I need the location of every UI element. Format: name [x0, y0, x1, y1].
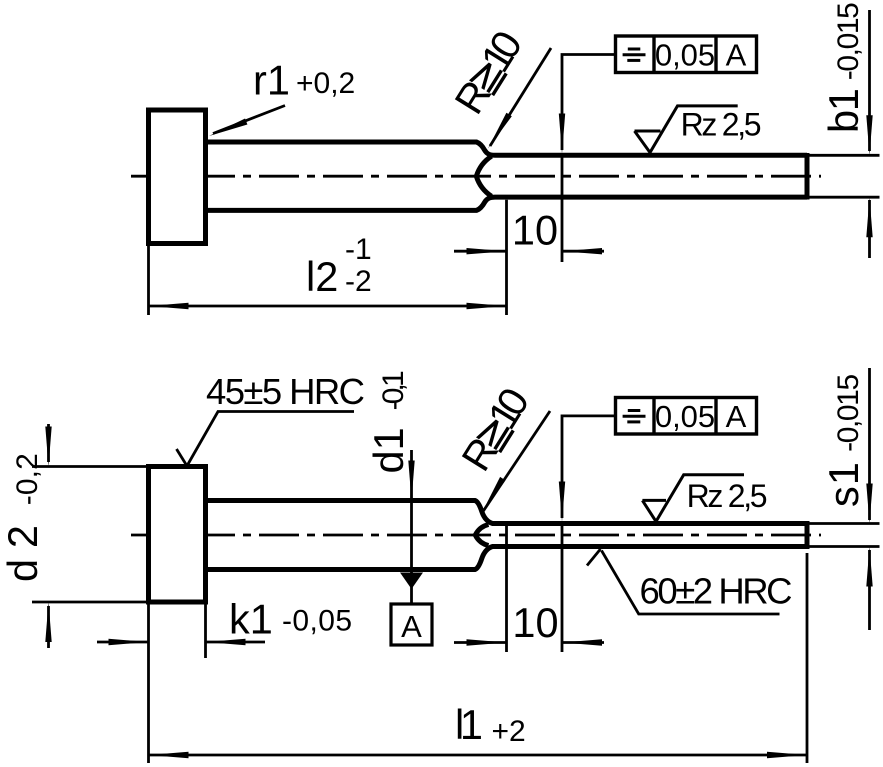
dimension 10 (bottom view) dimension line and arrows: [454, 641, 507, 644]
svg-text:Rz 2,5: Rz 2,5: [681, 107, 762, 143]
dimension s1 extension lines: [810, 522, 880, 525]
svg-text:60±2 HRC: 60±2 HRC: [640, 571, 793, 612]
shank top edge with fillet (top view): [206, 142, 808, 155]
parallelism tolerance frame (bottom view): [616, 398, 757, 435]
svg-text:-1: -1: [345, 233, 372, 266]
datum A triangle: [400, 573, 423, 590]
tolerance frame leader (bottom view): [562, 416, 616, 518]
dimension l2 extension line: [147, 246, 150, 315]
svg-text:Rz 2,5: Rz 2,5: [687, 478, 768, 514]
shank bottom edge with fillet (top view): [206, 197, 808, 210]
svg-text:l1: l1: [455, 701, 483, 748]
dimension 10 (bottom view) extension lines: [505, 524, 508, 653]
svg-text:A: A: [726, 399, 747, 434]
parallelism tolerance frame (top view): [616, 36, 757, 73]
parallelism symbol bars (bottom frame): [623, 411, 646, 422]
label d1 leader line: [410, 450, 413, 604]
svg-text:10: 10: [512, 207, 558, 254]
label 45±5 HRC leader: [188, 412, 355, 466]
surface finish symbol Rz 2,5 (bottom view): [642, 475, 744, 522]
svg-text:45±5 HRC: 45±5 HRC: [206, 371, 365, 412]
svg-text:10: 10: [512, 599, 558, 646]
svg-text:-0,05: -0,05: [282, 605, 352, 638]
dimension b1 extension lines: [810, 154, 880, 157]
datum A box: [391, 604, 432, 645]
svg-text:0,05: 0,05: [655, 399, 715, 434]
label 45±5 HRC open arrowhead: [177, 449, 188, 466]
blade outline (top view): [805, 153, 810, 200]
parallelism symbol bars (top frame): [623, 49, 646, 60]
svg-text:+0,2: +0,2: [296, 67, 355, 100]
dimension 10 (top view) dimension line and arrows: [454, 250, 507, 253]
dimension d2 dimension line and arrows: [47, 424, 50, 462]
shank top edge with fillet (bottom view): [206, 501, 808, 524]
centerline (top view): [131, 175, 821, 178]
svg-text:A: A: [726, 38, 747, 73]
label r1 +0,2 leader: [213, 106, 285, 134]
label R&#8807;10 leader (top view): [490, 48, 551, 146]
blade outline (bottom view): [805, 521, 810, 549]
shank bottom edge with fillet (bottom view): [206, 547, 808, 570]
dimension l1 extension lines: [147, 604, 150, 763]
dimension l1 dimension line and arrows: [149, 754, 808, 757]
tolerance frame leader (top view): [562, 55, 616, 151]
svg-text:l2: l2: [306, 253, 338, 300]
dimension l2 dimension line and arrows: [149, 305, 507, 308]
dimension s1 dimension line and arrows: [868, 368, 871, 520]
svg-text:-2: -2: [345, 265, 372, 298]
label R&#8807;10 leader (bottom view): [482, 411, 550, 513]
svg-text:A: A: [401, 609, 422, 644]
pin head (top view): [149, 110, 206, 244]
centerline (bottom view): [131, 534, 821, 537]
dimension d2 extension lines: [32, 465, 146, 468]
dimension 10 (top view) extension lines: [505, 200, 508, 315]
dimension k1 dimension line and arrows: [97, 641, 149, 644]
surface finish symbol Rz 2,5 (top view): [635, 106, 738, 153]
dimension b1 dimension line and arrows: [868, 10, 871, 151]
svg-text:k1: k1: [229, 596, 273, 643]
pin head (bottom view): [149, 467, 206, 603]
label 60±2 HRC open arrowhead: [587, 549, 601, 566]
svg-text:0,05: 0,05: [655, 38, 715, 73]
blade nose cap (top view): [476, 156, 491, 196]
blade nose cap (bottom view): [475, 525, 488, 546]
dimension k1 extension line: [204, 604, 207, 658]
svg-text:r1: r1: [253, 57, 290, 104]
svg-text:+2: +2: [492, 715, 526, 748]
label 60±2 HRC leader: [602, 551, 780, 615]
